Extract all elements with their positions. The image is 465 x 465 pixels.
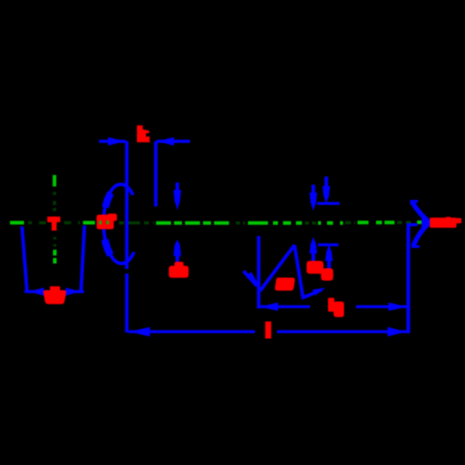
wire: t2 upper tick xyxy=(317,202,340,205)
wire: r leader second arrow line xyxy=(307,290,322,297)
horizontal centerline bright segments xyxy=(10,221,430,225)
label d2 xyxy=(97,214,117,230)
tick at lower barb end xyxy=(412,245,420,248)
wire: t1 lower arrow shaft xyxy=(311,252,315,262)
label t1 xyxy=(307,261,324,274)
label d3 xyxy=(169,262,189,278)
arrowhead d1 right xyxy=(66,288,80,296)
arrowhead on arc upper (thick arc segment) xyxy=(105,193,110,208)
arrowhead r second (pointing up-right) xyxy=(313,288,326,296)
cone tip wedge xyxy=(422,217,433,229)
arrowhead k right (pointing left) xyxy=(157,137,174,146)
vertical centerline dim dots xyxy=(53,192,56,247)
wire: t2 lower tick xyxy=(318,243,339,246)
wire: right extension line (x=408.3) xyxy=(406,224,410,334)
wire: small foot at right extension top xyxy=(407,223,418,226)
wire: d3 upper arrow shaft xyxy=(176,183,180,193)
arrowhead t2 upper (pointing down) xyxy=(323,186,331,203)
wire: extension line groove right (x=155.8) xyxy=(154,141,157,206)
wire: extension line groove left lower xyxy=(125,274,128,333)
arrowhead t1 upper (pointing down) xyxy=(310,193,318,211)
label d1 xyxy=(43,286,66,304)
label r xyxy=(275,278,295,291)
wire: t2 lower arrow shaft xyxy=(327,259,331,270)
wire: r leader arrow line xyxy=(244,271,258,286)
wire: extension line groove left upper (x=126.8) xyxy=(125,141,128,269)
wire: k dimension line left part xyxy=(99,140,126,143)
label T xyxy=(47,217,60,231)
wire: left extension line of d1 xyxy=(22,227,27,292)
label at cone tip (60deg) xyxy=(430,217,462,228)
arrowhead t1 lower (pointing up) xyxy=(310,237,318,254)
label l xyxy=(265,322,271,339)
wire: groove flank left (V shape) xyxy=(260,245,295,291)
label k xyxy=(137,125,150,142)
wire: d1 dimension line xyxy=(25,290,85,293)
wire: groove flank right (V shape) xyxy=(295,245,310,298)
horizontal centerline dim segments xyxy=(28,221,415,225)
wire: d3 lower arrow shaft xyxy=(176,254,180,264)
cone tip arrow upper barb xyxy=(412,202,430,223)
arrowhead r leader (pointing down-right) xyxy=(246,272,261,289)
cone tip arrow lower barb xyxy=(413,223,430,247)
arc: d2 ellipse arc xyxy=(104,184,134,263)
wire: tg dimension line left part xyxy=(259,305,310,308)
wire: l dimension line left part xyxy=(128,330,255,333)
arrowhead on arc lower (thick arc segment) xyxy=(105,240,111,256)
label tg xyxy=(328,298,344,317)
arrowhead tg left (pointing left) xyxy=(260,303,278,311)
wire: right extension line of d1 xyxy=(81,226,85,292)
arrowhead d3 lower (pointing up) xyxy=(174,240,182,256)
wire: l dimension line right part xyxy=(277,330,407,333)
arrowhead t2 lower (pointing up) xyxy=(325,245,333,261)
arrowhead k left (pointing right) xyxy=(108,137,125,146)
arrowhead d1 left xyxy=(30,288,44,296)
wire: k dimension line right part xyxy=(157,140,191,143)
label t2 xyxy=(321,268,333,280)
arrowhead d3 upper (pointing down) xyxy=(174,190,182,210)
wire: t2 upper arrow shaft xyxy=(324,177,328,189)
vertical centerline bright segments xyxy=(53,175,57,264)
wire: extension line V left (x=258.7) xyxy=(257,236,260,309)
green dots showing through d2 label xyxy=(99,221,101,225)
wire: tg dimension line right part xyxy=(356,305,407,308)
arrowhead l left (pointing left) xyxy=(129,327,150,337)
arrowhead tg right (pointing right) xyxy=(389,303,407,311)
arrowhead l right (pointing right) xyxy=(388,327,407,337)
wire: t1 upper arrow shaft xyxy=(311,185,315,195)
tick at upper barb end xyxy=(410,200,418,203)
